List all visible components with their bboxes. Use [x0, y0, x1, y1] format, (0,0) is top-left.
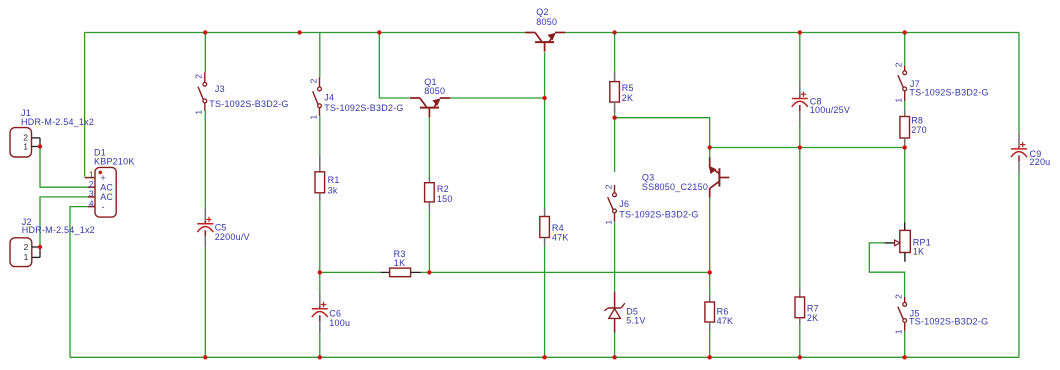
svg-text:100u/25V: 100u/25V — [810, 105, 850, 115]
svg-text:R6: R6 — [717, 307, 729, 317]
junction top bus / J3 — [203, 30, 207, 34]
wire R3 to node R3-right — [421, 271, 430, 273]
svg-text:AC: AC — [100, 192, 113, 202]
junction node C R3 wire / R6 — [708, 270, 712, 274]
wire node R3-left to R3 — [320, 271, 381, 273]
wire node B to Q3 emitter — [615, 118, 710, 148]
wire R1 to node R3-left — [319, 201, 321, 273]
junction bottom bus / C5 — [203, 355, 207, 359]
wire node A to R4 — [544, 98, 546, 208]
svg-text:2: 2 — [603, 184, 613, 189]
wire top bus left of Q2 — [85, 32, 526, 34]
wire D1 pin 4 to bottom bus — [70, 207, 89, 358]
wire J7 to R8 — [904, 101, 906, 109]
junction top bus segment joint — [297, 30, 301, 34]
wire left rail from top bus to D1 pin 1 — [84, 33, 86, 177]
wire J6 to D5 — [614, 222, 616, 293]
junction bottom bus / R7 — [798, 355, 802, 359]
svg-text:C5: C5 — [215, 223, 227, 233]
wire C6 to bottom bus — [319, 333, 321, 358]
resistor R6 — [705, 295, 733, 330]
svg-text:Q2: Q2 — [536, 7, 548, 17]
capacitor C5 — [197, 208, 249, 248]
wire R2 to node R3-right — [428, 210, 430, 273]
wire RP1 wiper jog to J5 — [869, 243, 904, 297]
wire J3 to C5 — [204, 110, 206, 207]
svg-text:1: 1 — [894, 329, 904, 334]
wire node R3-left to C6 — [319, 272, 321, 292]
wire top bus to J3 — [204, 33, 206, 73]
junction Q3 emitter node — [708, 145, 712, 149]
junction J1 pins — [38, 144, 42, 148]
transistor Q2 — [525, 7, 565, 52]
wire R8 to node Q3-R8 — [904, 146, 906, 148]
junction top bus / C8 — [798, 30, 802, 34]
svg-text:2200u/V: 2200u/V — [215, 232, 250, 242]
wire top bus to J7 — [904, 33, 906, 66]
wire R6 to bottom bus — [709, 330, 711, 357]
wire Q3 emitter stub top — [709, 148, 711, 158]
junction node R3 right — [427, 270, 431, 274]
svg-text:1: 1 — [23, 141, 28, 151]
transistor Q3 — [642, 157, 729, 198]
resistor R5 — [610, 72, 634, 113]
junction bottom bus / J5 — [903, 355, 907, 359]
capacitor C9 — [1011, 133, 1050, 173]
wire node Q3-R8 to R7 — [799, 148, 801, 291]
svg-text:J4: J4 — [324, 93, 334, 103]
junction bottom bus / R6 — [708, 355, 712, 359]
svg-text:TS-1092S-B3D2-G: TS-1092S-B3D2-G — [909, 88, 988, 98]
wire J4 to R1 — [319, 115, 321, 164]
junction node A Q1 emitter / Q2 base — [542, 96, 546, 100]
wire node B to J6 — [614, 118, 616, 172]
wire Q1 emitter to node A — [450, 97, 545, 99]
switch J3 — [194, 72, 289, 114]
svg-text:8050: 8050 — [536, 17, 557, 27]
svg-text:TS-1092S-B3D2-G: TS-1092S-B3D2-G — [209, 99, 288, 109]
svg-text:SS8050_C2150: SS8050_C2150 — [642, 182, 708, 192]
svg-text:1K: 1K — [394, 258, 405, 268]
svg-text:R8: R8 — [911, 116, 923, 126]
svg-text:2: 2 — [894, 294, 904, 299]
svg-text:1: 1 — [894, 98, 904, 103]
svg-text:-: - — [102, 202, 105, 212]
junction node B R5 / Q3 wire — [612, 116, 616, 120]
wire node Q3-R8 down to RP1 — [904, 148, 906, 223]
junction J2 pins — [38, 245, 42, 249]
svg-text:2: 2 — [194, 74, 204, 79]
junction bottom bus / C6 — [318, 355, 322, 359]
svg-text:J3: J3 — [215, 84, 225, 94]
wire node C to R6 — [709, 272, 711, 295]
wire top bus to J4 — [319, 33, 321, 78]
potentiometer RP1 — [885, 223, 931, 262]
wire top bus to R5 — [614, 33, 616, 72]
svg-text:J6: J6 — [619, 199, 629, 209]
wire node Q3-R8 horizontal — [710, 147, 905, 149]
junction C8 / R7 node — [798, 145, 802, 149]
svg-text:2: 2 — [89, 179, 94, 189]
svg-text:2: 2 — [894, 62, 904, 67]
junction top bus / J7 — [903, 30, 907, 34]
junction top bus / Q1 collector — [377, 30, 381, 34]
junction bottom bus / D5 — [612, 355, 616, 359]
svg-text:TS-1092S-B3D2-G: TS-1092S-B3D2-G — [324, 103, 403, 113]
svg-text:TS-1092S-B3D2-G: TS-1092S-B3D2-G — [909, 316, 988, 326]
wire bottom bus — [70, 356, 1019, 358]
svg-text:1: 1 — [89, 169, 94, 179]
switch J5 — [894, 294, 989, 334]
wire top bus to C9 — [1018, 33, 1020, 133]
svg-text:1: 1 — [308, 115, 318, 120]
svg-text:220u: 220u — [1030, 157, 1051, 167]
svg-text:TS-1092S-B3D2-G: TS-1092S-B3D2-G — [619, 210, 698, 220]
resistor R1 — [315, 155, 340, 201]
wire D5 to bottom bus — [614, 333, 616, 358]
junction R8 / RP1 node — [903, 145, 907, 149]
svg-text:2: 2 — [24, 242, 29, 252]
junction top bus / R5 — [612, 30, 616, 34]
resistor R4 — [540, 208, 569, 246]
svg-text:2K: 2K — [622, 93, 633, 103]
svg-text:5.1V: 5.1V — [626, 315, 645, 325]
wire J5 to bottom bus — [904, 331, 906, 358]
switch J7 — [894, 62, 989, 102]
svg-text:+: + — [100, 173, 105, 183]
svg-text:3: 3 — [89, 189, 94, 199]
resistor R3 — [381, 249, 421, 277]
svg-text:HDR-M-2.54_1x2: HDR-M-2.54_1x2 — [21, 117, 94, 127]
connector J1 — [10, 108, 94, 157]
svg-text:HDR-M-2.54_1x2: HDR-M-2.54_1x2 — [22, 225, 95, 235]
switch J4 — [308, 77, 403, 119]
svg-text:R2: R2 — [437, 184, 449, 194]
svg-text:47K: 47K — [552, 232, 569, 242]
connector J2 — [10, 217, 95, 266]
wire node R3-right to node D5-top — [429, 271, 709, 273]
resistor R7 — [795, 290, 819, 325]
wire Q2 base down to node A — [544, 52, 546, 98]
capacitor C6 — [312, 293, 350, 333]
wire top bus to Q1 collector — [379, 33, 409, 99]
svg-text:1: 1 — [603, 220, 613, 225]
svg-text:Q3: Q3 — [642, 173, 654, 183]
wire C8 to node Q3-R8 — [799, 123, 801, 148]
zener diode D5 — [604, 292, 645, 333]
svg-text:3k: 3k — [328, 186, 338, 196]
junction bottom bus / R4 — [542, 355, 546, 359]
wire top bus right of Q2 — [565, 32, 1019, 34]
wire C5 to bottom bus — [204, 248, 206, 357]
svg-text:270: 270 — [911, 125, 927, 135]
svg-text:2: 2 — [308, 78, 318, 83]
transistor Q1 — [410, 77, 450, 117]
bridge rectifier D1 — [85, 148, 135, 217]
svg-text:1: 1 — [194, 110, 204, 115]
capacitor C8 — [792, 83, 850, 123]
resistor R8 — [900, 109, 927, 146]
wire J2 to D1 pin 3 — [40, 197, 89, 247]
svg-text:4: 4 — [89, 198, 94, 208]
svg-text:47K: 47K — [717, 316, 734, 326]
svg-text:2K: 2K — [807, 313, 818, 323]
wire C9 to bottom bus — [1018, 173, 1020, 357]
svg-text:R5: R5 — [622, 83, 634, 93]
wire top bus to C8 — [799, 33, 801, 83]
wire J1 to D1 pin 2 — [40, 147, 89, 188]
svg-text:KBP210K: KBP210K — [94, 156, 135, 166]
wire Q3 collector to node C — [709, 198, 711, 273]
switch J6 — [603, 184, 698, 224]
wire R4 to bottom bus — [544, 246, 546, 357]
wire R7 to bottom bus — [799, 325, 801, 358]
svg-text:150: 150 — [437, 194, 453, 204]
wire R5 to node B — [614, 110, 616, 118]
svg-text:1: 1 — [24, 252, 29, 262]
svg-text:100u: 100u — [329, 318, 350, 328]
svg-text:R4: R4 — [552, 223, 564, 233]
svg-text:AC: AC — [100, 183, 113, 193]
svg-text:8050: 8050 — [424, 86, 445, 96]
svg-text:R7: R7 — [807, 304, 819, 314]
junction node R3 left — [318, 270, 322, 274]
resistor R2 — [425, 178, 453, 210]
svg-text:R1: R1 — [328, 175, 340, 185]
svg-text:1K: 1K — [913, 247, 924, 257]
wire Q1 base to R2 — [428, 117, 430, 178]
